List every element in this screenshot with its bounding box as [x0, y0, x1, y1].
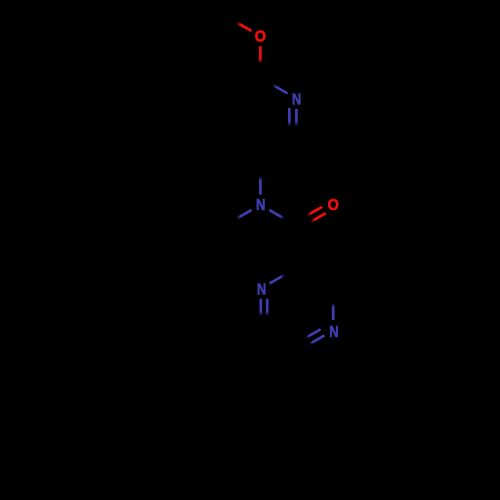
bond C6-N1 (pyridine, blue half) — [260, 78, 287, 94]
svg-text:N: N — [329, 324, 338, 341]
double bond C=O main line (carbonyl, red half) — [295, 207, 322, 223]
double bond N1=C6 inner line (pyrazine, blue half) — [266, 299, 269, 326]
bond N-C carbonyl (amide N to C=O carbon, blue half) — [269, 210, 296, 226]
bond N-CH3 (amide N to methyl, blue half) — [224, 210, 251, 226]
bond O1-C6 (O to pyridine C6, red half) — [259, 46, 262, 78]
svg-text:O: O — [328, 197, 339, 214]
double bond N1=C2 inner line (pyridine, blue half) — [288, 108, 291, 135]
svg-text:O: O — [255, 28, 266, 45]
svg-text:N: N — [292, 91, 301, 108]
double bond N1=C2 main line (pyridine, blue half) — [295, 109, 298, 141]
double bond N4=C5 main line (pyrazine, blue half) — [297, 335, 324, 351]
bond C3-N4 (pyrazine, blue half) — [332, 289, 335, 321]
double bond C=O inner line (carbonyl, red half) — [298, 213, 325, 229]
svg-text:N: N — [257, 281, 266, 298]
double bond N4=C5 inner line (pyrazine, blue half) — [295, 329, 320, 344]
bond C2-N1 (pyrazine, blue half) — [270, 268, 297, 284]
bond C3-N (pyridine C3 to amide N, blue half) — [259, 161, 262, 194]
bond CH3-O (methoxy methyl to O1, red half) — [224, 15, 251, 31]
double bond N1=C6 main line (pyrazine, blue half) — [259, 299, 262, 331]
svg-text:N: N — [256, 197, 265, 214]
